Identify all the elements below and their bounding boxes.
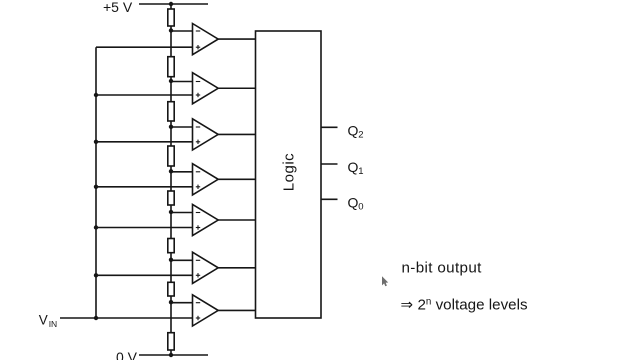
svg-text:Q: Q bbox=[348, 194, 359, 210]
svg-text:Q: Q bbox=[348, 122, 359, 138]
svg-text:2: 2 bbox=[358, 129, 363, 140]
svg-text:1: 1 bbox=[358, 166, 363, 177]
svg-text:n-bit output: n-bit output bbox=[402, 260, 483, 277]
svg-text:+5 V: +5 V bbox=[103, 0, 133, 15]
svg-text:⇒ 2n voltage levels: ⇒ 2n voltage levels bbox=[401, 296, 529, 313]
svg-text:V: V bbox=[39, 313, 48, 328]
svg-text:Q: Q bbox=[348, 159, 359, 175]
svg-text:0 V: 0 V bbox=[116, 349, 138, 360]
svg-text:Logic: Logic bbox=[280, 153, 297, 191]
svg-text:IN: IN bbox=[49, 319, 58, 329]
svg-text:0: 0 bbox=[358, 201, 363, 212]
